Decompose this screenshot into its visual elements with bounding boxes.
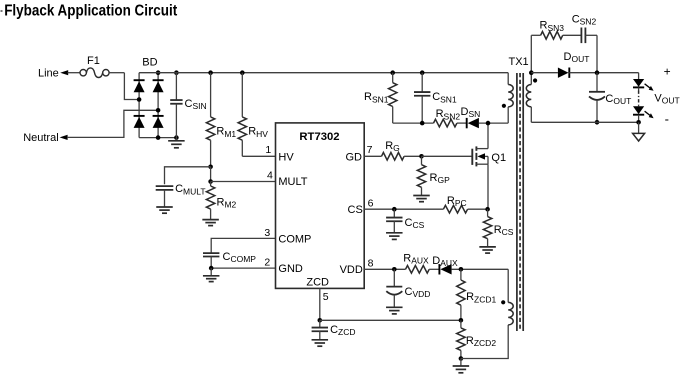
resistor RG xyxy=(364,153,421,161)
capacitor CCS xyxy=(386,209,403,239)
wire RHV to HV pin xyxy=(242,155,275,157)
node RGP junction xyxy=(419,154,424,159)
svg-text:RSN1: RSN1 xyxy=(364,91,389,104)
pin name COMP xyxy=(278,233,311,245)
node RM1 top xyxy=(208,70,213,75)
svg-text:CSIN: CSIN xyxy=(185,98,207,111)
label RG xyxy=(385,140,400,153)
wire DAUX to aux winding xyxy=(452,269,509,302)
label RAUX xyxy=(403,252,429,265)
resistor RHV xyxy=(238,73,246,157)
label COUT xyxy=(605,93,631,106)
wire CS pin xyxy=(364,208,443,210)
capacitor COUT xyxy=(589,73,605,123)
svg-text:CCOMP: CCOMP xyxy=(223,251,257,264)
svg-text:6: 6 xyxy=(368,197,374,209)
wire bridge bottom rail xyxy=(139,137,176,139)
node RSN1 top xyxy=(390,70,395,75)
svg-text:RM2: RM2 xyxy=(217,196,237,209)
node Line label xyxy=(38,68,59,80)
ground below RGP xyxy=(413,196,430,202)
svg-text:RPC: RPC xyxy=(447,195,467,208)
label RZCD2 xyxy=(466,335,496,348)
transformer core xyxy=(517,73,523,331)
wire RSN2 to DSN xyxy=(457,122,467,124)
svg-text:7: 7 xyxy=(367,144,373,156)
LED D1 xyxy=(633,79,644,91)
resistor RSN3 xyxy=(531,32,562,40)
svg-text:COUT: COUT xyxy=(605,93,631,106)
node Neutral label xyxy=(23,132,58,144)
ground below CZCD xyxy=(312,340,329,346)
svg-text:8: 8 xyxy=(368,258,374,270)
aux polarity dot xyxy=(501,300,505,304)
svg-text:CSN2: CSN2 xyxy=(572,14,597,27)
ground below CCOMP xyxy=(203,268,220,282)
pin name GND xyxy=(278,263,303,275)
wire COMP pin xyxy=(211,238,275,253)
node CSN1 top xyxy=(420,70,425,75)
svg-text:DSN: DSN xyxy=(461,106,481,119)
output ground triangle xyxy=(633,122,645,141)
ground below RCS xyxy=(479,247,496,253)
node drain junction xyxy=(486,121,491,126)
title text xyxy=(1,2,178,19)
label DSN xyxy=(461,106,481,119)
LED series dash-dot xyxy=(638,91,640,105)
svg-text:3: 3 xyxy=(264,227,270,239)
node RZCD1 top xyxy=(459,267,464,272)
label RGP xyxy=(430,172,451,185)
diode DOUT xyxy=(558,68,569,78)
resistor RSN2 xyxy=(434,119,457,127)
ground below CVDD xyxy=(386,307,403,314)
label plus xyxy=(664,64,671,78)
Line input arrow xyxy=(60,70,68,75)
label RSN2 xyxy=(436,108,461,121)
wire Line to fuse xyxy=(68,72,81,74)
svg-text:RZCD1: RZCD1 xyxy=(466,291,496,304)
label RM1 xyxy=(216,126,236,139)
wire VDD pin xyxy=(364,268,405,270)
node secondary top xyxy=(529,70,534,75)
svg-text:1: 1 xyxy=(265,144,271,156)
wire output bottom rail xyxy=(531,121,638,123)
node ZCD divider junction xyxy=(459,318,464,323)
pin 8 label xyxy=(368,258,374,270)
node bridge line-in xyxy=(137,97,142,102)
label Q1 xyxy=(491,152,506,164)
pin 1 label xyxy=(265,144,271,156)
label CCS xyxy=(405,217,425,230)
ground below RM2 xyxy=(202,220,219,226)
svg-text:Line: Line xyxy=(38,68,59,80)
diode BD lower-left xyxy=(134,116,145,128)
capacitor CSN1 xyxy=(414,73,430,123)
svg-text:RSN2: RSN2 xyxy=(436,108,461,121)
Neutral input arrow xyxy=(60,135,68,140)
primary polarity dot xyxy=(502,104,506,108)
node CVDD junction xyxy=(392,267,397,272)
pin 6 label xyxy=(368,197,374,209)
resistor RGP xyxy=(417,156,425,195)
wire RAUX to DAUX xyxy=(429,268,439,270)
svg-text:RHV: RHV xyxy=(248,126,268,139)
label RM2 xyxy=(217,196,237,209)
pin 7 label xyxy=(367,144,373,156)
svg-text:RG: RG xyxy=(385,140,400,153)
resistor RAUX xyxy=(406,266,430,274)
capacitor CVDD xyxy=(386,269,402,307)
svg-text:VOUT: VOUT xyxy=(654,93,679,106)
ground below RZCD2 xyxy=(453,359,470,373)
svg-text:RCS: RCS xyxy=(494,224,514,237)
pin 3 label xyxy=(264,227,270,239)
svg-text:CSN1: CSN1 xyxy=(432,91,457,104)
wire secondary to DOUT xyxy=(531,72,558,74)
label RHV xyxy=(248,126,268,139)
secondary polarity dot xyxy=(533,78,537,82)
pin 4 label xyxy=(267,169,273,181)
node MULT junction xyxy=(208,179,213,184)
capacitor CMULT xyxy=(156,186,174,207)
resistor RSN1 xyxy=(389,73,397,123)
label CZCD xyxy=(330,324,355,337)
label CCOMP xyxy=(223,251,257,264)
node CSN1 bottom xyxy=(420,121,425,126)
svg-text:-: - xyxy=(665,112,669,127)
wire CSN2 to output xyxy=(585,35,597,72)
svg-text:DAUX: DAUX xyxy=(432,255,458,268)
label CSN1 xyxy=(432,91,457,104)
node bridge top junctions xyxy=(156,70,179,75)
label minus xyxy=(665,112,669,127)
wire DSN to drain xyxy=(479,122,508,124)
op-amp U1 RT7302 box xyxy=(276,123,365,289)
LED D2 xyxy=(633,106,644,122)
svg-text:F1: F1 xyxy=(87,55,100,67)
label DOUT xyxy=(564,51,590,64)
label VOUT xyxy=(654,93,679,106)
wire ZCD pin xyxy=(319,288,321,320)
wire bridge right column xyxy=(157,73,159,138)
svg-text:TX1: TX1 xyxy=(509,56,529,68)
wire top rail xyxy=(139,72,508,74)
pin name GD xyxy=(346,151,363,163)
label RSN1 xyxy=(364,91,389,104)
diode DAUX xyxy=(439,264,451,274)
svg-text:ZCD: ZCD xyxy=(306,276,329,288)
transformer secondary winding xyxy=(526,73,531,123)
svg-text:GD: GD xyxy=(346,151,363,163)
label CMULT xyxy=(175,183,205,196)
pin 5 label xyxy=(323,291,329,303)
label CSIN xyxy=(185,98,207,111)
diode DSN xyxy=(467,118,479,128)
wire aux winding return xyxy=(461,325,508,359)
wire RM1 to MULT junction xyxy=(210,167,212,182)
capacitor CCOMP xyxy=(203,253,219,268)
svg-text:CVDD: CVDD xyxy=(405,286,431,299)
svg-text:CCS: CCS xyxy=(405,217,425,230)
diode BD lower-right xyxy=(153,116,164,128)
node RHV top xyxy=(240,70,245,75)
svg-text:GND: GND xyxy=(278,263,303,275)
resistor RZCD2 xyxy=(457,320,465,358)
label CVDD xyxy=(405,286,431,299)
svg-text:MULT: MULT xyxy=(278,176,307,188)
wire CMULT branch xyxy=(165,167,211,185)
node CMULT junction xyxy=(208,165,213,170)
svg-text:VDD: VDD xyxy=(340,264,363,276)
fuse F1 xyxy=(80,68,109,78)
svg-text:DOUT: DOUT xyxy=(564,51,590,64)
capacitor CSN2 xyxy=(581,28,585,44)
label TX1 xyxy=(509,56,529,68)
transistor Q1 xyxy=(472,123,488,209)
resistor RM2 xyxy=(206,182,214,220)
resistor RM1 xyxy=(206,73,214,167)
LED D1 emission arrow xyxy=(645,84,654,91)
transformer primary winding xyxy=(508,73,513,123)
capacitor CSIN xyxy=(170,73,182,138)
svg-text:5: 5 xyxy=(323,291,329,303)
node RZCD2 bottom xyxy=(459,356,464,361)
svg-text:CZCD: CZCD xyxy=(330,324,355,337)
label DAUX xyxy=(432,255,458,268)
wire snubber bottom xyxy=(393,122,434,124)
svg-text:RZCD2: RZCD2 xyxy=(466,335,496,348)
wire fuse to bridge xyxy=(109,73,139,100)
svg-text:RSN3: RSN3 xyxy=(540,20,565,33)
node LED bottom xyxy=(636,120,641,125)
label F1 xyxy=(87,55,100,67)
LED D2 emission arrow xyxy=(645,111,654,118)
label RSN3 xyxy=(540,20,565,33)
svg-text:RT7302: RT7302 xyxy=(299,131,339,143)
label RPC xyxy=(447,195,467,208)
svg-text:BD: BD xyxy=(142,56,157,68)
wire MULT pin xyxy=(211,181,276,183)
svg-text:Q1: Q1 xyxy=(491,152,506,164)
svg-text:RM1: RM1 xyxy=(216,126,236,139)
wire secondary to snubber xyxy=(530,35,532,72)
node CZCD junction xyxy=(318,318,323,323)
diode BD upper-left xyxy=(134,80,145,92)
transformer aux winding xyxy=(508,302,513,325)
capacitor CZCD xyxy=(312,320,328,340)
wire Neutral to bridge xyxy=(67,110,158,137)
svg-text:2: 2 xyxy=(264,257,270,269)
svg-text:CMULT: CMULT xyxy=(175,183,205,196)
svg-text:CS: CS xyxy=(348,204,363,216)
wire GND pin xyxy=(211,267,275,269)
svg-text:RAUX: RAUX xyxy=(403,252,429,265)
resistor RZCD1 xyxy=(457,269,465,320)
node RCS junction xyxy=(485,207,490,212)
node bridge neutral-in xyxy=(156,108,161,113)
resistor RPC xyxy=(443,205,487,213)
wire to LED1 xyxy=(638,73,640,79)
pin 2 label xyxy=(264,257,270,269)
svg-text:HV: HV xyxy=(278,151,294,163)
pin name CS xyxy=(348,204,363,216)
svg-text:COMP: COMP xyxy=(278,233,311,245)
label RZCD1 xyxy=(466,291,496,304)
wire to LED2 xyxy=(638,105,640,107)
node bridge bottom junctions xyxy=(156,135,179,140)
ground below CSIN xyxy=(168,138,185,148)
node COUT bottom xyxy=(595,120,600,125)
label BD xyxy=(142,56,157,68)
svg-text:Neutral: Neutral xyxy=(23,132,58,144)
wire gate xyxy=(422,155,473,157)
wire DOUT to COUT xyxy=(569,72,638,74)
wire bridge left column xyxy=(138,73,140,138)
label RCS xyxy=(494,224,514,237)
node COUT top xyxy=(595,70,600,75)
pin name VDD xyxy=(340,264,363,276)
pin name ZCD xyxy=(306,276,329,288)
wire ZCD net xyxy=(320,319,461,321)
diode BD upper-right xyxy=(153,80,164,92)
svg-text:4: 4 xyxy=(267,169,273,181)
node CCOMP-GND junction xyxy=(209,266,214,271)
svg-text:Flyback Application Circuit: Flyback Application Circuit xyxy=(4,2,177,19)
label CSN2 xyxy=(572,14,597,27)
node CCS junction xyxy=(392,207,397,212)
pin name MULT xyxy=(278,176,307,188)
svg-text:+: + xyxy=(664,64,671,78)
ground below CMULT xyxy=(156,207,173,213)
wire RSN3 to CSN2 xyxy=(563,34,582,36)
pin name HV xyxy=(278,151,294,163)
resistor RCS xyxy=(483,209,491,247)
svg-text:RGP: RGP xyxy=(430,172,451,185)
label RT7302 xyxy=(299,131,339,143)
